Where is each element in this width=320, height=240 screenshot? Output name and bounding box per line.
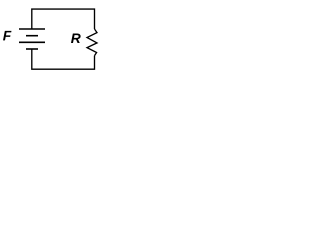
battery F plate short bottom: [26, 48, 38, 50]
resistor R zigzag: [87, 29, 97, 56]
label R: [71, 34, 81, 43]
battery F plate short: [26, 35, 38, 37]
battery F plate long lower: [19, 41, 45, 43]
battery F plate long top: [19, 28, 45, 30]
wire bottom: [32, 49, 95, 69]
wire top/left/right loop: [32, 9, 95, 29]
label F: [3, 31, 11, 40]
